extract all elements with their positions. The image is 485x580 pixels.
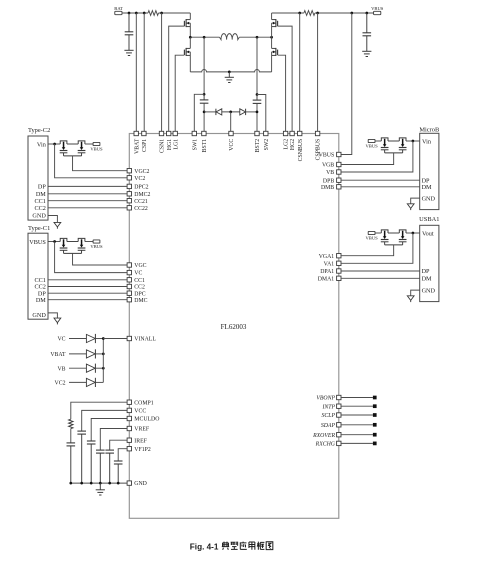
svg-text:BAT: BAT: [114, 6, 123, 11]
node RXOVER test point: [373, 433, 377, 437]
wire VBUS rail right: [315, 12, 374, 14]
svg-text:RXOVER: RXOVER: [312, 433, 335, 439]
pin LG2: [283, 131, 287, 135]
node BAT junctions: [128, 12, 131, 15]
svg-text:DM: DM: [422, 184, 432, 191]
svg-text:DM: DM: [422, 275, 432, 282]
capacitor C-MCULDO: [87, 440, 96, 442]
terminal VBUS USBA1: [368, 231, 375, 234]
wire Q1 source to SW1 node: [189, 23, 191, 37]
wire VCC decouple: [82, 410, 127, 431]
svg-text:DP: DP: [422, 268, 430, 275]
pin SW1: [192, 131, 196, 135]
wire Vin to pass-FETs: [48, 143, 60, 145]
wire between pass-FETs: [388, 232, 399, 234]
pin COMP1: [127, 400, 131, 404]
ground: [228, 72, 230, 77]
wire diode VC2 out: [95, 381, 103, 383]
svg-text:HG1: HG1: [167, 139, 173, 150]
wire BAT rail: [122, 12, 148, 14]
wire VA1 sense: [341, 233, 413, 263]
wire CC2: [48, 286, 127, 288]
wire VC sense: [55, 242, 128, 273]
wire BST1 from SW1 node: [203, 37, 205, 94]
pin CC2: [127, 284, 131, 288]
svg-text:COMP1: COMP1: [134, 400, 153, 406]
ground: [366, 36, 368, 52]
node VBUS rail junctions: [298, 12, 301, 15]
svg-text:SW2: SW2: [264, 139, 270, 151]
terminal VBUS C2: [93, 142, 100, 145]
pin RXCHG: [337, 441, 341, 445]
pin HG1: [167, 131, 171, 135]
pin CC22: [127, 206, 131, 210]
transistor Q1 high-side left: [186, 19, 190, 21]
wire VGA1 gate drive: [341, 245, 394, 256]
wire terminal to pass-FETs: [375, 140, 381, 142]
pin GND: [127, 481, 131, 485]
transistor Q2 low-side left: [186, 47, 190, 49]
svg-text:USBA1: USBA1: [419, 216, 439, 223]
svg-text:DM: DM: [36, 297, 46, 304]
wire VBAT pin: [135, 13, 137, 131]
wire SCLP signal: [341, 414, 373, 416]
pin DMC2: [127, 192, 131, 196]
svg-text:VBAT: VBAT: [134, 138, 140, 154]
wire pass-FET to VBUS terminal: [85, 241, 93, 243]
ground: [56, 317, 58, 319]
pin VCC: [229, 131, 233, 135]
wire LG1 gate: [175, 55, 184, 131]
svg-text:LG1: LG1: [173, 139, 179, 150]
capacitor C-VCC: [77, 430, 86, 432]
pin CSN1: [159, 131, 163, 135]
wire HG2 gate: [278, 26, 293, 131]
wire DMC: [48, 299, 127, 301]
wire BST2 from SW2 node: [256, 37, 258, 94]
svg-text:CSNBUS: CSNBUS: [298, 139, 304, 162]
pin VBONP: [337, 395, 341, 399]
wire VB to diode: [69, 367, 86, 369]
svg-text:VA1: VA1: [324, 261, 335, 267]
svg-text:DPC: DPC: [134, 291, 145, 297]
svg-text:VCC: VCC: [134, 409, 146, 415]
wire Q2 drain from SW1: [189, 37, 191, 48]
wire VCC node: [222, 111, 240, 113]
capacitor C-IREF: [105, 449, 114, 451]
node SW1: [190, 36, 219, 38]
svg-text:CSP1: CSP1: [142, 139, 148, 152]
pin VBAT: [134, 131, 138, 135]
node SCLP test point: [373, 413, 377, 417]
svg-text:Type-C1: Type-C1: [28, 225, 50, 232]
svg-text:VC2: VC2: [134, 176, 145, 182]
svg-text:MCULDO: MCULDO: [134, 417, 159, 423]
svg-text:SCLP: SCLP: [321, 413, 335, 419]
resistor R-senseBUS: [304, 11, 315, 16]
node SDAP test point: [373, 423, 377, 427]
node ground rail: [228, 71, 231, 74]
wire DPB: [341, 179, 420, 181]
wire COMP1: [71, 402, 127, 419]
resistor R-sense1: [148, 11, 159, 16]
wire between pass-FETs: [388, 140, 399, 142]
wire CC22: [48, 207, 127, 209]
wire MicroB GND: [411, 198, 420, 204]
capacitor C-BST2: [256, 95, 258, 101]
op-amp U1 FL62003 IC body: [129, 134, 338, 519]
pin SCLP: [337, 413, 341, 417]
pin MCULDO: [127, 416, 131, 420]
node INTP test point: [373, 404, 377, 408]
svg-text:VB: VB: [57, 366, 65, 372]
wire between pass-FETs: [67, 241, 78, 243]
pin VGC: [127, 263, 131, 267]
capacitor C-COMP1: [67, 442, 76, 444]
svg-text:GND: GND: [134, 481, 147, 487]
wire CC21: [48, 200, 127, 202]
capacitor C-BAT: [128, 13, 130, 32]
wire DPA1: [341, 270, 420, 272]
pin DPA1: [337, 269, 341, 273]
pin INTP: [337, 404, 341, 408]
wire VGC gate drive: [73, 253, 128, 265]
svg-text:VBAT: VBAT: [50, 352, 66, 358]
wire C2 GND: [48, 216, 57, 223]
wire VB sense: [341, 141, 413, 172]
node VBONP test point: [373, 396, 377, 400]
svg-text:CC1: CC1: [34, 198, 45, 205]
svg-text:MicroB: MicroB: [419, 127, 439, 134]
transistor pass-FET B: [399, 230, 406, 233]
wire pass-FET to VBUS terminal: [85, 143, 93, 145]
wire DPC2: [48, 185, 127, 187]
pin VCC: [127, 408, 131, 412]
svg-text:VBUS: VBUS: [90, 244, 103, 249]
pin LG1: [173, 131, 177, 135]
wire BST1 to pin: [203, 103, 205, 131]
wire Q3 drain: [271, 13, 273, 20]
svg-text:VBUS: VBUS: [29, 239, 46, 246]
svg-text:DPA1: DPA1: [320, 269, 334, 275]
svg-text:VGB: VGB: [322, 163, 334, 169]
transistor pass-FET A: [381, 230, 388, 233]
wire VINALL to pin: [103, 338, 127, 340]
svg-text:LG2: LG2: [284, 139, 290, 150]
svg-text:VGC: VGC: [134, 263, 146, 269]
svg-text:VC: VC: [134, 271, 142, 277]
wire VC2 to diode: [69, 381, 86, 383]
wire VBUS to pass-FETs: [48, 241, 60, 243]
svg-text:CSN1: CSN1: [160, 139, 166, 153]
wire SW2 node: [239, 36, 271, 38]
pin DPB: [337, 178, 341, 182]
wire CSP1 pin: [143, 13, 145, 131]
transistor Q4 low-side right: [272, 47, 276, 49]
wire USBA1 GND: [411, 290, 420, 296]
wire Q4 source to ground rail: [271, 52, 273, 72]
diode D-VC: [86, 334, 95, 342]
svg-text:VGC2: VGC2: [134, 169, 149, 175]
pin CSNBUS: [298, 131, 302, 135]
svg-text:INTP: INTP: [321, 404, 335, 410]
pin VBUS: [337, 152, 341, 156]
wire SDAP signal: [341, 424, 373, 426]
svg-text:GND: GND: [32, 312, 46, 319]
svg-text:VBUS: VBUS: [365, 236, 378, 241]
pin CC1: [127, 278, 131, 282]
pin BST1: [202, 131, 206, 135]
svg-text:VBUS: VBUS: [319, 153, 334, 159]
wire pass-FET to Vin: [406, 140, 420, 142]
inductor L1: [220, 34, 240, 40]
svg-text:VBUS: VBUS: [90, 147, 103, 152]
wire Q4 drain from SW2: [271, 37, 273, 48]
wire MCULDO: [91, 419, 127, 442]
svg-text:GND: GND: [32, 213, 46, 220]
transistor pass-FET B: [399, 138, 406, 141]
svg-text:BST2: BST2: [255, 139, 261, 153]
wire VGC2 gate drive: [73, 156, 128, 171]
wire CSNBUS pin: [299, 13, 301, 131]
wire Q2 source to ground rail: [189, 52, 191, 72]
svg-text:HG2: HG2: [290, 139, 296, 150]
wire gate tie: [385, 244, 403, 246]
ground: [410, 295, 412, 297]
pin DMB: [337, 185, 341, 189]
wire VBUS rail: [272, 12, 304, 14]
transistor pass-FET B: [78, 238, 85, 241]
svg-text:VBONP: VBONP: [316, 396, 335, 402]
wire BAT rail to Q1 drain: [159, 12, 191, 14]
capacitor C-VF1P2: [114, 460, 123, 462]
terminal VBUS MicroB: [368, 139, 375, 142]
wire pass-FET to Vout: [406, 232, 420, 234]
transistor pass-FET A: [381, 138, 388, 141]
svg-text:VREF: VREF: [134, 427, 150, 433]
pin SW2: [264, 131, 268, 135]
svg-text:VC2: VC2: [55, 381, 66, 387]
pin CSP1: [142, 131, 146, 135]
pin CC21: [127, 199, 131, 203]
wire diode VB out: [95, 367, 103, 369]
wire ground rail: [190, 70, 271, 72]
diode D-VBAT: [86, 350, 95, 358]
svg-text:DMC2: DMC2: [134, 192, 150, 198]
pin IREF: [127, 438, 131, 442]
resistor R-COMP1: [69, 419, 73, 428]
wire DMC2: [48, 193, 127, 195]
transistor Q3 high-side right: [272, 19, 276, 21]
wire VREF: [100, 429, 127, 451]
capacitor C-VREF: [96, 449, 105, 451]
wire C1 GND: [48, 313, 57, 318]
wire VF1P2: [118, 449, 127, 461]
wire RXCHG signal: [341, 442, 373, 444]
wire RXOVER signal: [341, 434, 373, 436]
pin DPC2: [127, 184, 131, 188]
wire DPC: [48, 292, 127, 294]
pin DMA1: [337, 276, 341, 280]
svg-text:VCC: VCC: [229, 139, 235, 151]
pin VGC2: [127, 169, 131, 173]
svg-text:DMA1: DMA1: [318, 276, 335, 282]
svg-text:VB: VB: [326, 170, 334, 176]
pin VC2: [127, 176, 131, 180]
wire VC2 sense: [55, 144, 128, 178]
wire LG2 gate: [278, 55, 286, 131]
svg-text:GND: GND: [422, 287, 436, 294]
wire terminal to pass-FETs: [375, 232, 381, 234]
transistor pass-FET B: [78, 141, 85, 144]
wire CSN1 pin: [161, 13, 163, 131]
svg-text:DMB: DMB: [321, 185, 334, 191]
svg-text:DMC: DMC: [134, 298, 147, 304]
pin DPC: [127, 291, 131, 295]
diode D-BST2: [240, 109, 246, 115]
wire SW1 pin: [194, 94, 204, 131]
ground: [99, 483, 101, 490]
svg-text:Type-C2: Type-C2: [28, 127, 50, 134]
pin VF1P2: [127, 447, 131, 451]
svg-text:BST1: BST1: [202, 139, 208, 153]
wire Q1 drain: [189, 13, 191, 20]
pin CSPBUS: [315, 131, 319, 135]
pin VREF: [127, 426, 131, 430]
svg-text:IREF: IREF: [134, 438, 147, 444]
svg-text:SDAP: SDAP: [321, 423, 336, 429]
svg-text:Vout: Vout: [422, 230, 434, 237]
wire: [70, 429, 72, 443]
node RXCHG test point: [373, 442, 377, 446]
pin BST2: [255, 131, 259, 135]
pin VINALL: [127, 336, 131, 340]
wire CSPBUS pin: [317, 13, 319, 131]
wire SW2 pin: [257, 95, 266, 132]
transistor pass-FET A: [60, 141, 67, 144]
wire gate tie: [385, 152, 403, 154]
wire GND rail: [71, 482, 127, 484]
wire VBAT to diode: [69, 353, 86, 355]
diode D-VC2: [86, 378, 95, 386]
svg-text:VGA1: VGA1: [319, 254, 335, 260]
pin VGB: [337, 162, 341, 166]
wire HG1 gate: [169, 26, 185, 131]
svg-text:FL62003: FL62003: [221, 323, 247, 331]
svg-text:CC21: CC21: [134, 199, 148, 205]
pin DMC: [127, 298, 131, 302]
svg-text:CC2: CC2: [34, 205, 45, 212]
wire diode VBAT out: [95, 353, 103, 355]
svg-text:Vin: Vin: [37, 141, 46, 148]
svg-text:GND: GND: [422, 195, 436, 202]
diode D-VB: [86, 364, 95, 372]
svg-text:VC: VC: [57, 337, 65, 343]
wire INTP signal: [341, 405, 373, 407]
pin VC: [127, 270, 131, 274]
ground: [56, 221, 58, 223]
svg-text:VBUS: VBUS: [371, 6, 384, 11]
wire VCC pin: [230, 112, 232, 131]
pin SDAP: [337, 423, 341, 427]
svg-text:DPB: DPB: [323, 178, 334, 184]
svg-text:VF1P2: VF1P2: [134, 447, 151, 453]
wire DMA1: [341, 277, 420, 279]
svg-text:DP: DP: [38, 184, 46, 191]
wire gate tie: [64, 252, 82, 254]
capacitor C-VBUS: [366, 13, 368, 33]
capacitor C-BST1: [203, 94, 205, 100]
wire IREF: [110, 440, 127, 450]
svg-text:DPC2: DPC2: [134, 185, 148, 191]
wire VGB gate drive: [341, 153, 394, 165]
wire VINALL bus: [102, 339, 104, 383]
wire VBONP signal: [341, 397, 373, 399]
svg-text:CC2: CC2: [134, 285, 145, 291]
wire between pass-FETs: [67, 143, 78, 145]
wire DMB: [341, 186, 420, 188]
wire diode VC out: [95, 338, 103, 340]
svg-text:Fig. 4-1: Fig. 4-1: [190, 542, 219, 551]
wire gate tie: [64, 155, 82, 157]
transistor pass-FET A: [60, 238, 67, 241]
svg-text:SW1: SW1: [192, 139, 198, 151]
pin RXOVER: [337, 433, 341, 437]
pin VGA1: [337, 254, 341, 258]
wire BST2 to pin: [256, 103, 258, 131]
svg-text:VBUS: VBUS: [365, 144, 378, 149]
pin VA1: [337, 261, 341, 265]
wire CC1: [48, 279, 127, 281]
ground: [128, 35, 130, 51]
diode D-BST1: [204, 111, 216, 113]
wire VBUS pin to rail: [341, 13, 352, 155]
svg-text:Vin: Vin: [422, 138, 431, 145]
ground: [410, 203, 412, 205]
terminal VBUS C1: [93, 240, 100, 243]
svg-text:CC22: CC22: [134, 206, 148, 212]
pin VB: [337, 170, 341, 174]
svg-text:VINALL: VINALL: [134, 337, 156, 343]
wire VC to diode: [69, 338, 86, 340]
pin HG2: [290, 131, 294, 135]
svg-text:CC1: CC1: [134, 278, 145, 284]
wire Q3 source to SW2: [271, 23, 273, 37]
svg-text:RXCHG: RXCHG: [315, 442, 336, 448]
